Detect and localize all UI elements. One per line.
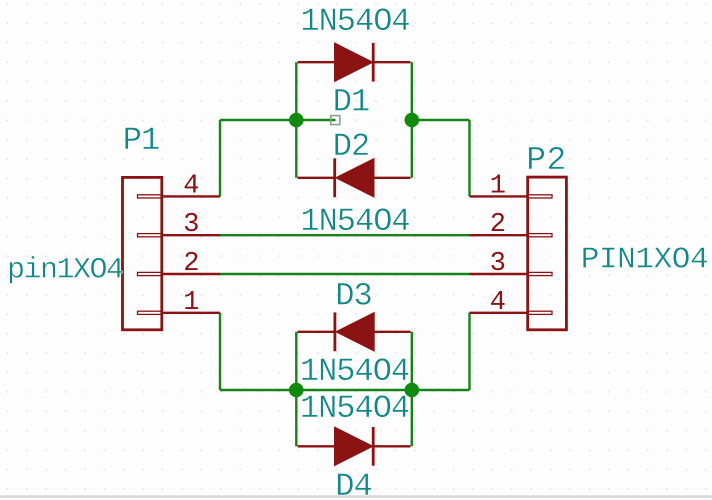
P1 pin 1 lead [162, 312, 220, 314]
svg-text:PIN1XO4: PIN1XO4 [581, 242, 708, 277]
svg-text:1N54O4: 1N54O4 [300, 353, 409, 390]
node anchor square [331, 116, 340, 125]
P2 pin 4 slot [528, 311, 552, 314]
diode D3 [298, 312, 411, 351]
svg-text:3: 3 [490, 249, 506, 279]
svg-text:4: 4 [490, 288, 506, 318]
P2 pin 1 lead [470, 195, 528, 197]
svg-text:1N54O4: 1N54O4 [300, 203, 409, 240]
P1 pin 2 slot [138, 272, 162, 275]
P2 pin 3 lead [470, 273, 528, 275]
wire: bottom bus horizontal [220, 389, 470, 391]
P2 pin 1 slot [528, 195, 552, 198]
wire: bottom bus up to P2 pin4 [468, 313, 470, 390]
svg-text:P1: P1 [123, 122, 159, 159]
junction bottom-left [289, 383, 304, 398]
diode D4 [298, 427, 411, 466]
wire: D1/D2 right vertical [411, 62, 413, 178]
svg-text:D2: D2 [333, 128, 369, 165]
svg-text:1N54O4: 1N54O4 [300, 390, 409, 427]
svg-text:3: 3 [183, 210, 199, 240]
wire: middle wire P1 pin2 to P2 pin3 [220, 273, 470, 275]
diode D1 [298, 43, 411, 82]
svg-text:2: 2 [183, 249, 199, 279]
diode D2 [298, 158, 411, 197]
connector P2 body [528, 177, 567, 330]
wire: P1 pin4 lead corner up to top bus [219, 120, 221, 196]
svg-text:D4: D4 [335, 468, 371, 500]
P2 pin 2 lead [470, 234, 528, 236]
bottom window edge [0, 495, 712, 500]
P1 pin 4 slot [138, 195, 162, 198]
svg-text:2: 2 [490, 210, 506, 240]
svg-text:D1: D1 [333, 84, 369, 121]
svg-text:1N54O4: 1N54O4 [300, 3, 409, 40]
junction bottom-right [405, 383, 420, 398]
wire: P1 pin1 down to bottom bus [219, 313, 221, 390]
P2 pin 4 lead [470, 312, 528, 314]
wire: top bus left segment ending at dangling end [220, 119, 336, 121]
wire: middle wire P1 pin3 to P2 pin2 [220, 234, 470, 236]
svg-text:D3: D3 [335, 278, 371, 315]
junction top-left [289, 113, 304, 128]
P1 pin 4 lead [162, 195, 220, 197]
wire: top bus right segment [412, 119, 470, 121]
svg-text:pin1XO4: pin1XO4 [7, 254, 123, 288]
svg-text:1: 1 [490, 171, 506, 201]
P1 pin 3 slot [138, 234, 162, 237]
P1 pin 2 lead [162, 273, 220, 275]
wire: D3/D4 left vertical [295, 332, 297, 447]
P2 pin 2 slot [528, 234, 552, 237]
P1 pin 3 lead [162, 234, 220, 236]
P2 pin 3 slot [528, 272, 552, 275]
P1 pin 1 slot [138, 311, 162, 314]
wire: top bus down to P2 pin1 [468, 120, 470, 196]
wire: D1/D2 left vertical [295, 62, 297, 178]
svg-text:1: 1 [183, 288, 199, 318]
connector P1 body [123, 177, 162, 329]
svg-text:4: 4 [183, 171, 199, 201]
junction top-right [405, 113, 420, 128]
wire: D3/D4 right vertical [411, 332, 413, 447]
svg-text:P2: P2 [526, 142, 567, 179]
